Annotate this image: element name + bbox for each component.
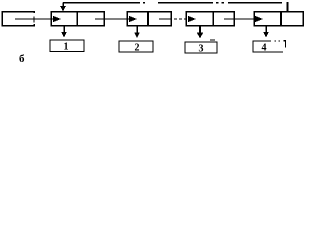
wire: head pointer to node 1 [15, 18, 54, 20]
arrowhead down to label 1 [61, 32, 67, 38]
node 4 box [254, 12, 303, 26]
label box 4 broken top dots [275, 40, 281, 42]
back pointer wire: top horizontal segment a [63, 2, 140, 4]
svg-text:б: б [19, 53, 25, 65]
speck dash above label box 3 right corner [210, 39, 215, 41]
arrowhead into node 4 [255, 16, 263, 22]
node 3 box [186, 12, 234, 26]
label box 3 [185, 42, 217, 53]
wire: node 1 next to node 2 [95, 18, 130, 20]
arrowhead down to label 2 [134, 33, 140, 39]
label box 4 [253, 41, 283, 52]
svg-text:4: 4 [262, 43, 267, 54]
label box 2 [119, 41, 153, 52]
arrowhead down to label 4 [263, 32, 269, 38]
back pointer wire: drop into node 1 [62, 3, 64, 8]
svg-text:1: 1 [64, 42, 69, 53]
node 1 box [51, 12, 104, 26]
wire: node 2 next to node 3 (partly dashed scan) [159, 18, 172, 20]
node 3 divider [212, 12, 214, 26]
arrowhead into node 2 [129, 16, 137, 22]
down wire node 4 to label 4 [265, 26, 267, 33]
back pointer wire: riser from node 4 top [287, 2, 289, 12]
down wire node 3 to label 3 [199, 26, 201, 34]
node 1 divider [76, 12, 78, 26]
arrowhead into node 1 [53, 16, 61, 22]
back pointer wire: top dots [143, 2, 147, 4]
head pointer box [2, 12, 34, 26]
svg-text:3: 3 [199, 44, 204, 55]
svg-text:2: 2 [135, 43, 140, 54]
node 4 divider [280, 12, 282, 26]
label box 1 [50, 40, 84, 52]
back pointer wire: top horizontal segment c [228, 2, 282, 4]
down wire node 2 to label 2 [136, 26, 138, 34]
arrowhead down into node 1 top [60, 6, 66, 12]
node 2 box [127, 12, 171, 26]
label box 4 right edge remnant [284, 41, 286, 48]
down wire node 1 to label 1 [63, 26, 65, 33]
back pointer wire: top dashes [216, 2, 226, 4]
back pointer wire: top horizontal segment b [158, 2, 213, 4]
node 2 divider [147, 12, 149, 26]
arrowhead into node 3 [188, 16, 196, 22]
head pointer box right-edge remnant [33, 17, 35, 23]
wire: node 3 next to node 4 [224, 18, 256, 20]
arrowhead down to label 3 [197, 33, 203, 39]
